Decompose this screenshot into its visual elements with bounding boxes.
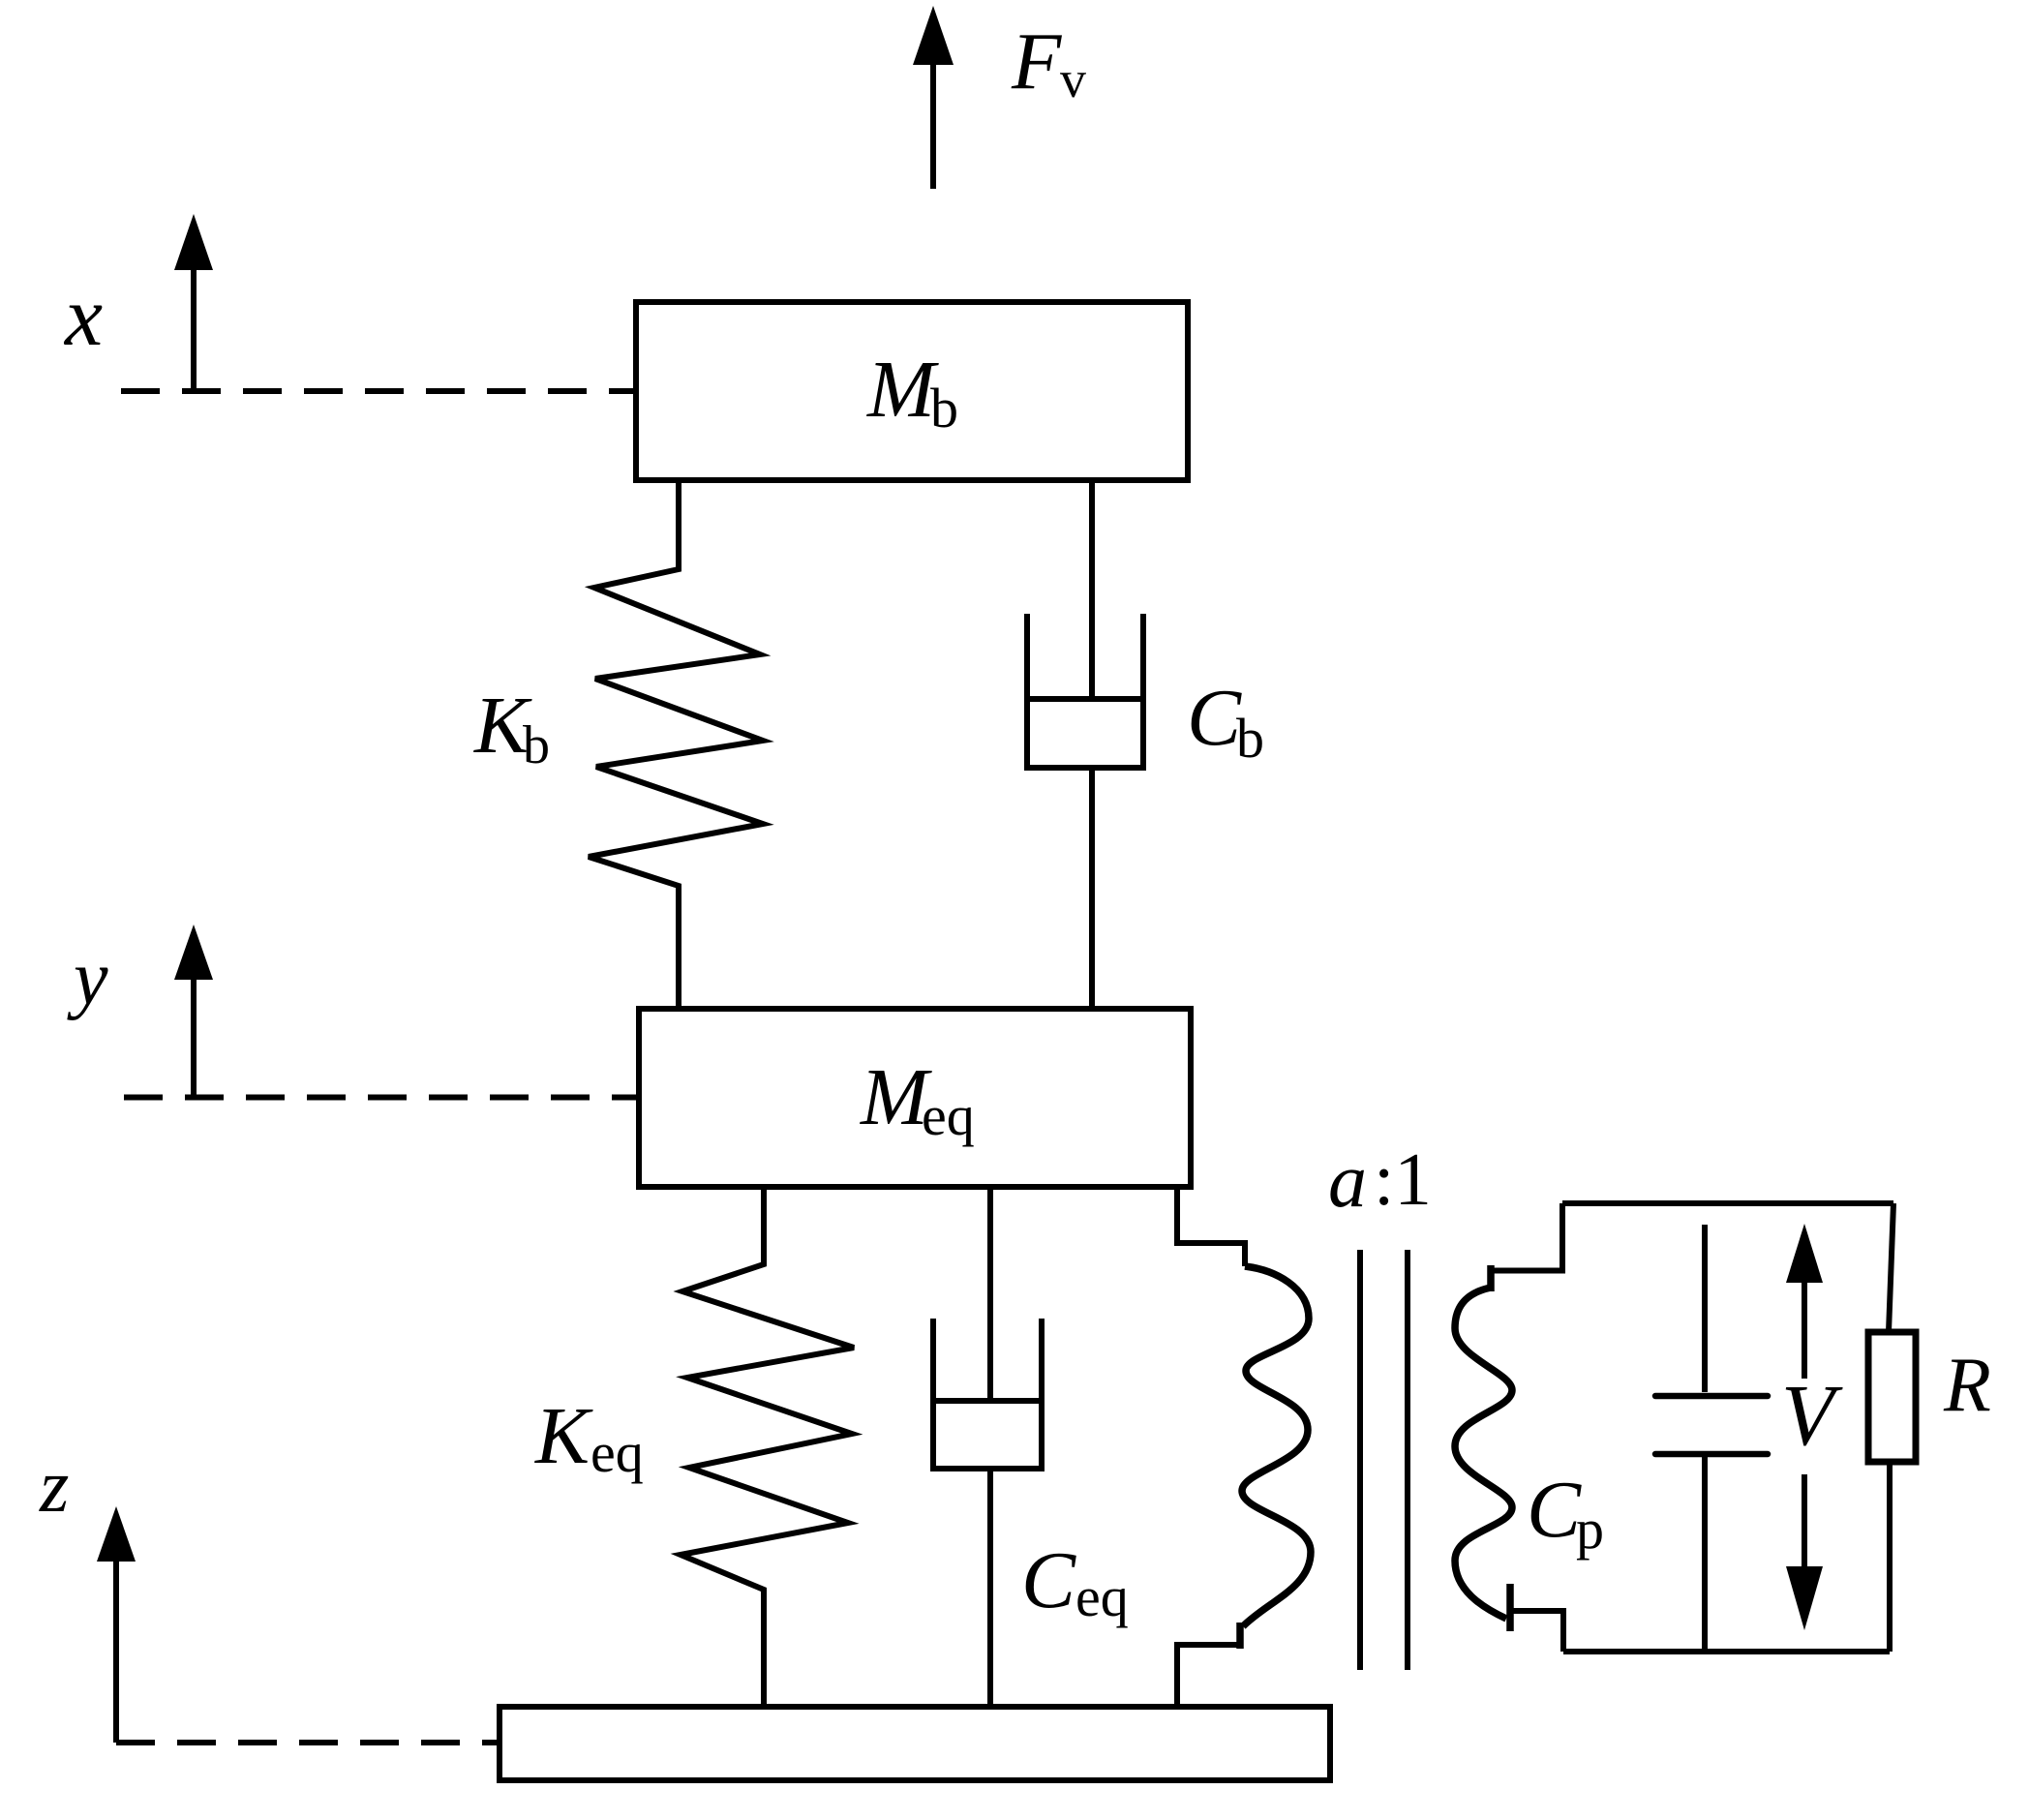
resistor R box (1868, 1332, 1916, 1462)
label Fv (1011, 16, 1086, 108)
spring Keq (681, 1187, 854, 1707)
svg-text:eq: eq (591, 1421, 644, 1484)
wire secondary top step (1491, 1203, 1562, 1271)
svg-text:K: K (534, 1391, 593, 1481)
wire secondary bottom step (1511, 1611, 1563, 1652)
y axis dashed line (124, 1095, 639, 1101)
label Mb (866, 345, 958, 440)
wire resistor bottom (1887, 1462, 1893, 1652)
damper Ceq rod (987, 1187, 993, 1400)
force arrow Fv head (913, 6, 954, 65)
svg-text:p: p (1576, 1498, 1604, 1561)
svg-text:C: C (1021, 1535, 1076, 1625)
svg-text:C: C (1527, 1465, 1582, 1555)
voltage V down arrow head (1786, 1566, 1823, 1630)
svg-text:eq: eq (1075, 1565, 1129, 1628)
svg-text:b: b (523, 715, 550, 775)
z axis dashed line (116, 1740, 500, 1745)
wire piezo bottom (1177, 1645, 1240, 1707)
damper Cb rod (1089, 480, 1095, 697)
capacitor top plate (1655, 1393, 1768, 1400)
transformer core (1357, 1250, 1363, 1670)
wire to resistor (slanted) (1889, 1203, 1893, 1332)
capacitor top lead (1702, 1225, 1708, 1392)
voltage V down arrow line (1802, 1474, 1807, 1568)
voltage V up arrow line (1802, 1276, 1807, 1379)
label Cb (1187, 673, 1264, 770)
wire output bottom (1563, 1649, 1890, 1654)
svg-text:F: F (1011, 16, 1063, 106)
label a:1 (1328, 1137, 1432, 1224)
svg-text:b: b (1236, 707, 1264, 770)
wire output top (1562, 1200, 1893, 1206)
label z axis (39, 1443, 69, 1528)
spring Kb (589, 480, 763, 1009)
svg-text:v: v (1060, 50, 1086, 108)
x axis arrow line (191, 263, 197, 391)
svg-text:M: M (866, 345, 939, 435)
mass Meq box (639, 1009, 1191, 1187)
label Cp (1527, 1465, 1604, 1561)
wire piezo hanger from Meq (1177, 1187, 1245, 1266)
x axis arrow head (174, 214, 213, 270)
svg-text:x: x (63, 270, 103, 364)
voltage V up arrow head (1786, 1224, 1823, 1283)
label V (1781, 1368, 1843, 1464)
svg-text:eq: eq (922, 1084, 975, 1147)
mass Mb box (636, 302, 1188, 480)
label Keq (534, 1391, 644, 1484)
ground plate (500, 1707, 1330, 1780)
transformer primary end tick (1236, 1623, 1244, 1649)
force arrow Fv line (930, 60, 936, 189)
svg-text::1: :1 (1374, 1137, 1432, 1221)
transformer secondary winding (1455, 1288, 1512, 1619)
damper Cb lower rod (1089, 768, 1095, 1009)
transformer secondary start tick (1487, 1265, 1495, 1291)
damper Cb cup (1027, 614, 1143, 768)
x axis dashed line (121, 388, 636, 394)
damper Cb piston plate (1027, 696, 1143, 702)
capacitor bottom lead (1702, 1454, 1708, 1652)
damper Ceq piston plate (933, 1398, 1042, 1404)
label Ceq (1021, 1535, 1129, 1628)
transformer primary winding (1242, 1266, 1311, 1626)
svg-text:V: V (1781, 1368, 1843, 1464)
label y axis (67, 936, 108, 1021)
label x axis (63, 270, 103, 364)
transformer secondary end tick (1506, 1584, 1514, 1631)
svg-text:a: a (1328, 1138, 1367, 1224)
svg-text:z: z (39, 1443, 69, 1528)
damper Ceq cup (933, 1319, 1042, 1469)
z axis arrow line (113, 1555, 119, 1743)
svg-text:y: y (67, 936, 108, 1021)
y axis arrow line (191, 973, 197, 1097)
label Meq (860, 1052, 975, 1147)
label R (1943, 1343, 1991, 1428)
damper Ceq lower rod (987, 1469, 993, 1707)
svg-text:R: R (1943, 1343, 1991, 1428)
svg-text:b: b (930, 377, 958, 440)
svg-text:C: C (1187, 673, 1242, 763)
label Kb (473, 681, 550, 775)
capacitor bottom plate (1655, 1451, 1768, 1458)
y axis arrow head (174, 925, 213, 980)
z axis arrow head (97, 1506, 136, 1562)
